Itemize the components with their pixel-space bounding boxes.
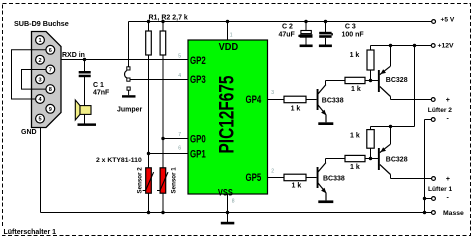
wire Luefter2 minus (425, 119, 432, 121)
wire GP3 net from jumper (130, 79, 188, 81)
svg-text:C 2: C 2 (282, 23, 293, 30)
svg-text:2 x KTY81-110: 2 x KTY81-110 (96, 157, 142, 164)
node sensor2 gnd (147, 211, 150, 214)
node Q2 emitter rail (389, 44, 392, 47)
svg-text:4: 4 (178, 73, 181, 79)
wire Q1 emitter stub (325, 115, 327, 122)
svg-text:8: 8 (49, 87, 52, 93)
wire R2/Sensor1 vertical (162, 22, 164, 213)
wire GP5 net (268, 177, 285, 179)
svg-text:+5 V: +5 V (441, 16, 455, 23)
resistor 1k pullup upper (367, 50, 374, 70)
node R1 top (147, 20, 150, 23)
terminal +5V (432, 20, 436, 24)
wire GP1 net (149, 153, 189, 155)
wire C1 to speaker (84, 77, 86, 105)
wire jumper drop from +5V rail (128, 22, 130, 67)
wire C3 branch (325, 22, 327, 32)
svg-text:R1, R2 2,7 k: R1, R2 2,7 k (149, 15, 188, 22)
terminal Luefter2 plus (431, 98, 435, 102)
node dots (83, 20, 426, 214)
jumper gnd bar (122, 95, 136, 97)
resistor R2 (160, 31, 166, 55)
svg-text:100 nF: 100 nF (342, 32, 365, 39)
wire lower 12V feed (371, 126, 415, 128)
label mask frame (0, 226, 66, 235)
svg-text:1: 1 (38, 38, 41, 44)
node GP0/R2 (161, 137, 164, 140)
wire +5V top rail (129, 21, 433, 23)
jumper gnd pin wire (128, 90, 130, 95)
svg-text:GP4: GP4 (246, 94, 262, 106)
sensor 2 KTY81-110 (146, 168, 152, 193)
wire DB9 pin5 to GND rail (40, 119, 42, 213)
svg-text:5: 5 (178, 53, 181, 59)
pin 6 (46, 45, 55, 54)
svg-text:BC328: BC328 (386, 77, 408, 84)
svg-text:PIC12F675: PIC12F675 (216, 75, 239, 153)
svg-text:6: 6 (49, 48, 52, 54)
svg-text:C 3: C 3 (345, 23, 356, 30)
svg-text:Masse: Masse (443, 210, 464, 217)
node base Q4 pullup (369, 157, 372, 160)
speaker/piezo symbol (75, 100, 80, 120)
wire GP4 net (268, 99, 285, 101)
svg-text:9: 9 (49, 107, 52, 113)
transistor Q3 BC338 lower (317, 163, 327, 193)
node luefter1 minus (423, 197, 426, 200)
node R2 top (161, 20, 164, 23)
transistor Q1 BC338 upper (317, 85, 327, 115)
svg-text:+: + (446, 176, 450, 183)
pin 3 (36, 75, 45, 84)
svg-text:1 k: 1 k (292, 182, 302, 189)
svg-text:GP1: GP1 (190, 148, 206, 160)
pin 1 (36, 36, 45, 45)
svg-text:47uF: 47uF (279, 32, 296, 39)
svg-text:1 k: 1 k (350, 164, 360, 171)
jumper blade arc (125, 71, 127, 79)
resistor 1k series Q2 (345, 77, 365, 83)
node C1 (83, 58, 86, 61)
svg-text:SUB-D9 Buchse: SUB-D9 Buchse (14, 19, 69, 28)
resistor 1k series Q4 (345, 155, 365, 161)
svg-text:VSS: VSS (218, 187, 233, 197)
sensor 1 KTY81-110 (160, 168, 166, 193)
svg-text:2: 2 (271, 168, 274, 174)
svg-text:8: 8 (232, 198, 235, 204)
svg-text:Lüfter 2: Lüfter 2 (428, 107, 453, 114)
node VDD (226, 20, 229, 23)
svg-text:Lüfter 1: Lüfter 1 (428, 186, 453, 193)
terminal +12V (431, 44, 435, 48)
svg-text:VDD: VDD (219, 42, 239, 53)
wire Q3 emitter stub (325, 193, 327, 201)
svg-text:+: + (446, 97, 450, 104)
wire Q3 collector node to R 1k (325, 159, 327, 163)
svg-text:2: 2 (38, 58, 41, 64)
pin 7 (46, 65, 55, 74)
resistor 1k pullup lower (367, 130, 374, 149)
terminal Luefter1 minus (432, 197, 436, 201)
transistor Q4 BC328 lower (378, 144, 391, 174)
svg-text:BC338: BC338 (322, 98, 344, 105)
svg-text:3: 3 (271, 90, 274, 96)
ground Q3 emitter (318, 200, 333, 203)
wire Luefter1 minus (425, 198, 432, 200)
terminal Masse (432, 211, 436, 215)
svg-text:1: 1 (230, 33, 233, 39)
resistor 1k base Q3 (284, 174, 306, 181)
node base Q2 pullup (369, 79, 372, 82)
svg-text:BC328: BC328 (386, 156, 408, 163)
svg-text:7: 7 (178, 132, 181, 138)
ground bar C2 (300, 45, 313, 48)
wire C2 branch (305, 22, 307, 31)
wire VDD (227, 22, 229, 41)
resistor 1k base Q1 (284, 96, 306, 103)
pin 8 (46, 85, 55, 94)
svg-text:1 k: 1 k (350, 133, 360, 140)
transistor Q2 BC328 upper (378, 66, 391, 96)
svg-text:1 k: 1 k (350, 52, 360, 59)
node sensor1 gnd (161, 211, 164, 214)
node C2 (304, 20, 307, 23)
svg-text:GP3: GP3 (190, 74, 206, 86)
capacitor C1 plates (79, 71, 91, 74)
jumper gnd pin square (127, 87, 130, 90)
svg-text:47nF: 47nF (93, 89, 110, 96)
resistor R1 (146, 31, 152, 55)
op-amp U1 PIC12F675 body (188, 40, 268, 194)
svg-text:GP0: GP0 (190, 133, 206, 145)
wire Q4 emitter to 12V feed (390, 127, 392, 145)
pin 4 (36, 95, 45, 104)
node C3 (324, 20, 327, 23)
svg-text:GND: GND (21, 129, 37, 136)
wire C1 branch upper (84, 60, 86, 72)
node GP1/R1 (147, 152, 150, 155)
svg-text:5: 5 (38, 117, 41, 123)
pin 9 (46, 104, 55, 113)
wire R1/Sensor2 vertical (148, 22, 150, 213)
pin 2 (36, 55, 45, 64)
svg-text:7: 7 (49, 68, 52, 74)
jumper lower contact (127, 78, 130, 81)
node VSS gnd (226, 211, 229, 214)
wire Luefter1 plus (390, 175, 392, 179)
wire DSR-DTR loop (pin6 to pin4) (12, 50, 51, 99)
terminal Luefter2 minus (431, 118, 435, 122)
capacitor C2 electrolytic (301, 31, 311, 34)
wire Q2 emitter to rail (390, 46, 392, 67)
wire pullup A stubs (370, 46, 372, 51)
svg-text:1 k: 1 k (291, 106, 301, 113)
jumper upper contact (127, 67, 130, 70)
wire GP0 net (163, 138, 188, 140)
node 12V drop (413, 44, 416, 47)
ground bar C3 (319, 45, 332, 48)
capacitor C3 (319, 32, 331, 35)
svg-text:6: 6 (178, 145, 181, 151)
svg-text:GP5: GP5 (246, 172, 262, 184)
svg-text:C 1: C 1 (93, 82, 104, 89)
connector SUB-D9 body (32, 32, 62, 128)
svg-text:1 k: 1 k (351, 86, 361, 93)
svg-text:Sensor 2: Sensor 2 (137, 167, 144, 194)
pin 5 (36, 114, 45, 123)
wire Q1 collector node to R 1k (325, 81, 327, 85)
svg-text:+12V: +12V (438, 42, 455, 49)
wire Luefter2 plus (390, 97, 392, 100)
ground below VSS (221, 222, 235, 225)
wire +12V rail (371, 45, 432, 47)
svg-text:RXD in: RXD in (62, 52, 85, 59)
wire VSS to ground (227, 194, 229, 222)
wire pullup D stubs (370, 127, 372, 130)
ground Q1 emitter (318, 122, 333, 125)
svg-text:BC338: BC338 (323, 175, 345, 182)
wire +12V long drop (414, 46, 416, 127)
svg-text:Jumper: Jumper (117, 106, 143, 113)
wire RXD/GP2 net (40, 59, 188, 61)
svg-text:3: 3 (38, 77, 41, 83)
node luefter minus gnd (423, 211, 426, 214)
wire RTS-CTS loop (pin7 to pin8) (22, 70, 51, 90)
svg-text:Sensor 1: Sensor 1 (170, 167, 177, 194)
ground bar below speaker (78, 123, 97, 126)
terminal Luefter1 plus (432, 177, 436, 181)
wire speaker to ground (84, 114, 86, 123)
wire GND bottom rail (41, 212, 432, 214)
node Q4 emitter feed (389, 125, 392, 128)
svg-text:Lüfterschalter 1: Lüfterschalter 1 (4, 229, 57, 236)
svg-text:GP2: GP2 (190, 55, 206, 67)
